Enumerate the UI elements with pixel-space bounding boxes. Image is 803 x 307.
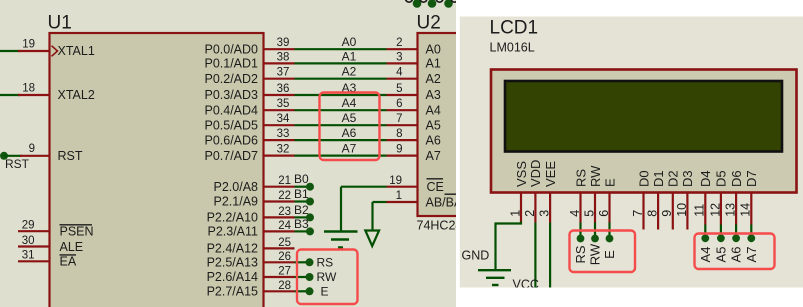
svg-text:P0.6/AD6: P0.6/AD6: [204, 133, 258, 147]
svg-text:D2: D2: [666, 170, 681, 187]
pin 9 lcd: [672, 193, 674, 230]
wire A0: [295, 48, 387, 50]
svg-text:A5: A5: [426, 118, 441, 132]
svg-text:23: 23: [278, 206, 291, 218]
svg-text:P0.0/AD0: P0.0/AD0: [204, 42, 258, 56]
svg-text:P2.7/A15: P2.7/A15: [207, 285, 258, 299]
pin 22 P2.1/A9: [264, 200, 295, 202]
pin 4 U2 A2: [387, 78, 418, 80]
svg-text:A1: A1: [426, 57, 441, 71]
pin 7 lcd: [642, 193, 644, 230]
pin 24 P2.3/A11: [264, 230, 295, 232]
pin 4 lcd: [579, 193, 581, 223]
svg-text:GND: GND: [462, 249, 490, 263]
svg-text:D3: D3: [680, 170, 695, 187]
svg-text:VDD: VDD: [528, 160, 543, 187]
svg-text:25: 25: [278, 237, 291, 249]
svg-text:B0: B0: [294, 172, 309, 186]
svg-text:8: 8: [396, 128, 402, 140]
svg-text:D0: D0: [636, 170, 651, 187]
pin 1 lcd: [520, 193, 522, 223]
pin 23 P2.2/A10: [264, 216, 295, 218]
svg-text:A5: A5: [713, 247, 728, 263]
clock arrow XTAL1: [52, 46, 58, 57]
paste top white band: [456, 0, 803, 17]
pin 3 U2 A1: [387, 62, 418, 64]
wire lcd D7: [750, 225, 752, 239]
wire A4: [295, 109, 387, 111]
pin 3 lcd: [549, 193, 551, 223]
annotation box A4-A7 lcd: [695, 234, 775, 270]
pin 27 P2.6/A14: [264, 276, 295, 278]
node E dot: [606, 235, 614, 243]
svg-text:19: 19: [22, 39, 35, 51]
svg-text:30: 30: [22, 235, 35, 247]
pin 5 U2 A3: [387, 94, 418, 96]
svg-text:6: 6: [597, 210, 611, 217]
pin 38 P0.1/AD1: [264, 62, 295, 64]
svg-text:RW: RW: [588, 165, 603, 187]
node B0 dot: [306, 183, 314, 191]
wire RST net: [4, 155, 22, 157]
pin 6 U2 A4: [387, 109, 418, 111]
svg-text:P2.4/A12: P2.4/A12: [207, 242, 258, 256]
annotation box A4-A7 labels: [320, 93, 380, 161]
annotation box RS RW E: [297, 250, 358, 305]
svg-text:D4: D4: [698, 170, 713, 187]
svg-text:34: 34: [277, 113, 290, 125]
svg-text:18: 18: [22, 83, 35, 95]
svg-text:36: 36: [277, 83, 290, 95]
svg-text:12: 12: [708, 203, 722, 217]
ic U1 body: [50, 33, 264, 307]
svg-text:P2.0/A8: P2.0/A8: [214, 180, 259, 194]
svg-text:P2.6/A14: P2.6/A14: [207, 270, 258, 284]
svg-text:A4: A4: [698, 247, 713, 263]
svg-text:RW: RW: [317, 270, 337, 284]
svg-text:1: 1: [396, 190, 402, 202]
wire A1: [295, 62, 387, 64]
svg-text:P0.4/AD4: P0.4/AD4: [204, 103, 258, 117]
annotation box RS RW E lcd: [570, 231, 636, 273]
svg-text:XTAL1: XTAL1: [58, 44, 95, 58]
svg-text:A3: A3: [426, 88, 441, 102]
svg-text:ALE: ALE: [60, 240, 84, 254]
svg-text:RST: RST: [5, 157, 30, 171]
svg-text:RST: RST: [58, 149, 83, 163]
svg-text:PSEN: PSEN: [60, 225, 94, 239]
svg-text:D5: D5: [714, 170, 729, 187]
pin 9 RST: [20, 155, 50, 157]
wire XTAL2 net: [0, 94, 20, 96]
wire XTAL1 net: [0, 50, 20, 52]
svg-text:13: 13: [724, 203, 738, 217]
paste left white sliver: [456, 0, 460, 307]
svg-text:B2: B2: [294, 203, 309, 217]
pin 12 lcd: [720, 193, 722, 225]
node A7 dot: [747, 234, 755, 242]
svg-text:A7: A7: [744, 247, 759, 263]
pin 25 P2.4/A12: [264, 247, 295, 249]
svg-text:8: 8: [646, 210, 660, 217]
svg-text:9: 9: [660, 210, 674, 217]
svg-text:A7: A7: [426, 149, 441, 163]
pin 6 lcd: [608, 193, 610, 223]
svg-text:2: 2: [396, 37, 402, 49]
svg-text:LM016L: LM016L: [490, 41, 535, 55]
pin 10 lcd: [686, 193, 688, 230]
wire A2: [295, 78, 387, 80]
pin 9 U2 A7: [387, 155, 418, 157]
svg-text:A2: A2: [426, 72, 441, 86]
wire RS stub: [295, 261, 310, 263]
svg-text:29: 29: [22, 220, 35, 232]
svg-text:21: 21: [278, 175, 291, 187]
wire lcd RW: [594, 223, 596, 239]
wire lcd D4: [704, 225, 706, 239]
svg-text:XTAL2: XTAL2: [58, 88, 95, 102]
svg-text:RS: RS: [317, 256, 334, 270]
svg-text:RW: RW: [588, 243, 603, 265]
wire lcd RS: [579, 223, 581, 239]
svg-text:A6: A6: [729, 247, 744, 263]
svg-text:D6: D6: [729, 170, 744, 187]
node RST junction dot: [0, 152, 8, 160]
wire B3 stub: [295, 230, 310, 232]
node B2 dot: [306, 213, 314, 221]
wire VSS to gnd: [496, 222, 522, 270]
svg-text:39: 39: [277, 37, 290, 49]
wire VEE down: [549, 223, 551, 288]
wire A6: [295, 139, 387, 141]
wire lcd E: [608, 223, 610, 239]
node E dot: [306, 287, 314, 295]
svg-text:D7: D7: [744, 170, 759, 187]
svg-text:P2.5/A13: P2.5/A13: [207, 256, 258, 270]
pin 21 P2.0/A8: [264, 186, 295, 188]
svg-text:A4: A4: [342, 96, 357, 110]
wire lcd D6: [735, 225, 737, 239]
svg-text:A4: A4: [426, 103, 441, 117]
node A5 dot: [717, 234, 725, 242]
svg-text:P0.7/AD7: P0.7/AD7: [204, 149, 258, 163]
svg-text:22: 22: [278, 190, 291, 202]
pin 26 P2.5/A13: [264, 261, 295, 263]
arrow terminal: [365, 231, 379, 247]
pin 1 AB/BA wire: [373, 201, 387, 203]
svg-text:P2.3/A11: P2.3/A11: [207, 225, 258, 239]
pin 7 U2 A5: [387, 124, 418, 126]
svg-text:1: 1: [508, 210, 522, 217]
node RS dot: [306, 258, 314, 266]
svg-text:P0.3/AD3: P0.3/AD3: [204, 88, 258, 102]
svg-text:33: 33: [277, 128, 290, 140]
pin 8 lcd: [657, 193, 659, 230]
wire AB/BA to arrow: [371, 202, 373, 231]
node A4 dot: [701, 234, 709, 242]
node A6 dot: [732, 234, 740, 242]
pin 37 P0.2/AD2: [264, 78, 295, 80]
wire B2 stub: [295, 216, 310, 218]
svg-text:7: 7: [396, 113, 402, 125]
pin 34 P0.5/AD5: [264, 124, 295, 126]
svg-text:19: 19: [389, 175, 402, 187]
wire A7: [295, 155, 387, 157]
svg-text:D1: D1: [651, 170, 666, 187]
pin 14 lcd: [750, 193, 752, 225]
svg-text:P0.1/AD1: P0.1/AD1: [204, 57, 258, 71]
svg-text:VSS: VSS: [514, 161, 529, 187]
svg-text:A1: A1: [342, 49, 357, 63]
pin 5 lcd: [594, 193, 596, 223]
svg-text:3: 3: [396, 51, 402, 63]
paste white backing: [456, 0, 803, 307]
pin 28 P2.7/A15: [264, 290, 295, 292]
svg-text:31: 31: [22, 250, 35, 262]
pin 35 P0.4/AD4: [264, 109, 295, 111]
pin 19 XTAL1: [18, 50, 50, 52]
pin 29 PSEN: [18, 230, 50, 232]
node B3 dot: [306, 227, 314, 235]
node top dot 3: [444, 0, 453, 8]
svg-text:E: E: [321, 285, 329, 299]
svg-text:26: 26: [278, 251, 291, 263]
svg-text:38: 38: [277, 51, 290, 63]
lcd LCD1 body: [491, 70, 797, 193]
svg-text:P2.2/A10: P2.2/A10: [207, 211, 258, 225]
svg-text:P2.1/A9: P2.1/A9: [214, 195, 259, 209]
pin 2 U2 A0: [387, 48, 418, 50]
ground under CE: [324, 230, 358, 233]
svg-text:B1: B1: [294, 187, 309, 201]
svg-text:RS: RS: [573, 245, 588, 263]
top cut text arcs: [406, 0, 458, 2]
pin 39 P0.0/AD0: [264, 48, 295, 50]
paste background: [460, 17, 803, 288]
svg-text:B3: B3: [294, 217, 309, 231]
svg-text:7: 7: [631, 210, 645, 217]
svg-text:6: 6: [396, 98, 402, 110]
svg-text:U1: U1: [48, 13, 72, 34]
svg-text:EA: EA: [60, 255, 77, 269]
wire A5: [295, 124, 387, 126]
svg-text:4: 4: [396, 67, 403, 79]
svg-text:3: 3: [538, 210, 552, 217]
ic U2 body: [418, 33, 462, 216]
pin 8 U2 A6: [387, 139, 418, 141]
svg-text:A0: A0: [426, 42, 441, 56]
svg-text:4: 4: [568, 210, 582, 217]
svg-text:9: 9: [29, 143, 35, 155]
wire B1 stub: [295, 200, 310, 202]
svg-text:32: 32: [277, 144, 290, 156]
pin 31 EA: [18, 260, 50, 262]
node top dot 1: [413, 0, 422, 8]
node RS dot: [577, 235, 585, 243]
node top dot 2: [428, 0, 437, 8]
wire E stub: [295, 290, 310, 292]
node B1 dot: [306, 198, 314, 206]
svg-text:P0.2/AD2: P0.2/AD2: [204, 72, 258, 86]
pin 11 lcd: [704, 193, 706, 225]
svg-text:A6: A6: [426, 133, 441, 147]
svg-text:9: 9: [396, 144, 402, 156]
svg-text:14: 14: [739, 203, 753, 217]
wire VDD to vcc: [534, 223, 536, 288]
pin 36 P0.3/AD3: [264, 94, 295, 96]
svg-text:A5: A5: [342, 111, 357, 125]
svg-text:2: 2: [523, 210, 537, 217]
svg-text:A0: A0: [342, 35, 357, 49]
pin 19 CE wire: [341, 186, 387, 188]
wire A3: [295, 94, 387, 96]
node RW dot: [591, 235, 599, 243]
svg-text:LCD1: LCD1: [490, 18, 539, 39]
svg-text:A6: A6: [342, 126, 357, 140]
svg-text:RS: RS: [573, 169, 588, 187]
wire RW stub: [295, 276, 310, 278]
svg-text:11: 11: [693, 204, 707, 217]
pin 32 P0.7/AD7: [264, 155, 295, 157]
svg-text:E: E: [602, 178, 617, 187]
pin 2 lcd: [534, 193, 536, 223]
svg-text:A2: A2: [342, 65, 357, 79]
svg-text:37: 37: [277, 67, 290, 79]
wire lcd D5: [720, 225, 722, 239]
wire B0 stub: [295, 186, 310, 188]
svg-text:10: 10: [675, 203, 689, 217]
svg-text:24: 24: [278, 220, 291, 232]
pin 30 ALE: [18, 245, 50, 247]
svg-text:28: 28: [278, 280, 291, 292]
pin 18 XTAL2: [18, 94, 50, 96]
svg-text:5: 5: [582, 210, 596, 217]
svg-text:P0.5/AD5: P0.5/AD5: [204, 118, 258, 132]
svg-text:27: 27: [278, 266, 291, 278]
svg-text:5: 5: [396, 83, 402, 95]
svg-text:35: 35: [277, 98, 290, 110]
svg-text:A7: A7: [342, 142, 357, 156]
wire CE to ground: [340, 187, 342, 231]
node RW dot: [306, 273, 314, 281]
paste bottom white band: [456, 288, 803, 307]
svg-text:VEE: VEE: [543, 161, 558, 187]
svg-text:U2: U2: [417, 13, 441, 34]
svg-text:CE: CE: [427, 180, 444, 194]
ground symbol: [478, 269, 511, 271]
lcd screen: [505, 81, 782, 152]
pin 33 P0.6/AD6: [264, 139, 295, 141]
pin 13 lcd: [735, 193, 737, 225]
svg-text:E: E: [602, 250, 617, 259]
